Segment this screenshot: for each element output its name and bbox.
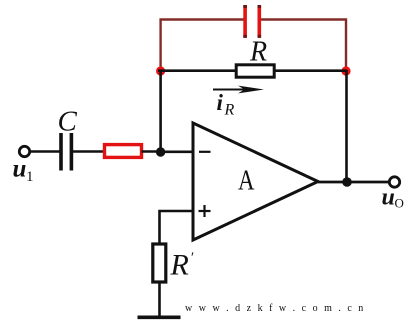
wire: vertical from red junction down to inverting node (159, 70, 162, 152)
svg-text:1: 1 (26, 169, 34, 185)
capacitor C2 (red feedback capacitor) left plate (243, 5, 247, 38)
terminal: input u1 circle (19, 146, 29, 156)
svg-text:O: O (395, 196, 404, 211)
svg-text:R: R (249, 36, 267, 67)
capacitor C right plate (70, 133, 74, 171)
plus sign (non-inverting input) (199, 210, 211, 212)
svg-text:A: A (238, 166, 255, 197)
wire: input to capacitor C (30, 150, 60, 153)
wire: feedback resistor horizontal line right part (274, 69, 347, 72)
current arrow i_R (213, 86, 264, 94)
resistor R' (153, 244, 166, 282)
node: red junction dot right (341, 66, 350, 75)
svg-text:u: u (382, 185, 395, 211)
minus sign (inverting input) (199, 151, 211, 153)
capacitor C left plate (59, 133, 63, 171)
ground (138, 315, 181, 319)
wire: output from op-amp (318, 181, 390, 184)
svg-text:′: ′ (190, 250, 194, 266)
wire: right vertical feedback (345, 70, 348, 182)
wire: feedback resistor horizontal line left part (158, 69, 236, 72)
svg-text:C: C (58, 106, 78, 138)
svg-text:i: i (217, 90, 224, 115)
wire: red feedback right segment (cap to right vertical) (261, 20, 347, 71)
svg-text:R: R (224, 102, 235, 119)
resistor (red, unlabeled) (105, 145, 142, 158)
wire: op-amp plus input (160, 211, 194, 244)
svg-text:R: R (170, 249, 189, 282)
node: output junction dot (342, 177, 352, 187)
op-amp A (193, 123, 318, 240)
node: red junction dot left (156, 66, 165, 75)
resistor R (236, 65, 274, 77)
node: inverting input junction dot (156, 147, 165, 156)
wire: R' to ground (158, 282, 161, 317)
svg-text:u: u (13, 156, 27, 183)
terminal: output uO circle (389, 177, 399, 187)
wire: red feedback left segment (vertical + top horizontal to cap) (161, 20, 244, 71)
svg-text:w w w . d z k f w . c o m . c: w w w . d z k f w . c o m . c n (185, 303, 365, 314)
capacitor C2 right plate (258, 5, 262, 38)
wire: capacitor C to red resistor (73, 150, 104, 153)
wire: junction to op-amp minus input (161, 151, 193, 154)
wire: red resistor to inverting node (142, 150, 162, 153)
